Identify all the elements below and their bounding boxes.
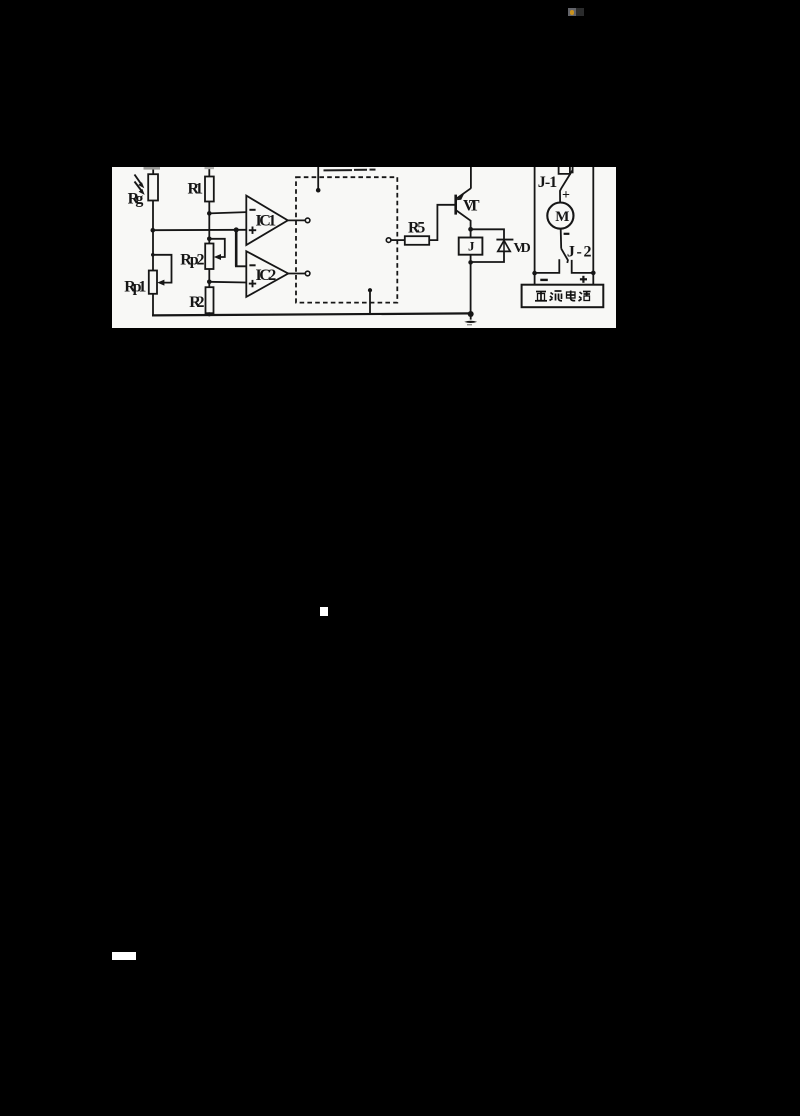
op-amp IC1 plus sign bbox=[249, 227, 256, 234]
node relay bottom dot bbox=[468, 260, 473, 265]
node VT collector dot bbox=[468, 227, 473, 232]
op-amp IC2 plus sign bbox=[249, 280, 256, 287]
svg-text:R2: R2 bbox=[189, 294, 204, 311]
diode VD triangle bbox=[498, 241, 510, 252]
op-amp IC2 output wire bbox=[288, 273, 305, 275]
motor minus sign bbox=[564, 233, 570, 235]
op-amp IC1 bbox=[246, 196, 287, 245]
svg-text:VD: VD bbox=[514, 241, 531, 256]
potentiometer Rp2 wiper loop bbox=[209, 239, 225, 260]
node divider A dot bbox=[151, 228, 156, 233]
wire to diode VD top bbox=[471, 229, 504, 239]
relay contact J-2 arm bbox=[561, 249, 568, 263]
resistor R5 body bbox=[405, 236, 429, 245]
battery minus sign bbox=[540, 279, 548, 281]
wire diode VD bottom bbox=[471, 251, 504, 262]
wire module supply stub bbox=[317, 167, 319, 190]
svg-text:+: + bbox=[562, 188, 570, 203]
relay contact J-2 fixed stub right bbox=[572, 260, 594, 273]
node supply stub dot bbox=[316, 188, 321, 193]
small white square mid page bbox=[320, 607, 328, 616]
wire relay bottom to ground rail bbox=[470, 255, 472, 314]
svg-text:Rp1: Rp1 bbox=[124, 278, 146, 295]
wire R1 bottom to Rp2 bbox=[208, 202, 210, 244]
photoresistor Rg top wire bbox=[152, 167, 154, 175]
op-amp IC1 minus sign bbox=[249, 209, 255, 211]
svg-text:Rp2: Rp2 bbox=[180, 251, 204, 268]
wire to R5 bbox=[391, 239, 405, 241]
wire VT emitter up bbox=[470, 167, 472, 188]
node R1/Rp2 reference dot bbox=[207, 211, 212, 216]
node Rp2 top dot bbox=[207, 237, 212, 242]
wire ground rail bottom bbox=[152, 313, 471, 315]
terminal IC1 output circle bbox=[305, 218, 310, 223]
wire to IC1 inverting input bbox=[209, 212, 246, 213]
crop smudge above R1 bbox=[205, 167, 215, 169]
wire bar to IC2 inverting input bbox=[235, 230, 246, 266]
wire supply rail right bbox=[592, 167, 594, 285]
transistor VT collector bbox=[457, 211, 471, 238]
photoresistor Rg body bbox=[148, 174, 158, 200]
svg-text:R5: R5 bbox=[408, 219, 425, 236]
node rail right dot bbox=[591, 271, 596, 276]
hatched crop line top bbox=[324, 169, 376, 172]
relay contact J-1 bbox=[559, 167, 573, 202]
resistor R2 body bbox=[206, 287, 214, 313]
ground symbol bbox=[464, 311, 477, 325]
node R2 bottom dot bbox=[207, 312, 211, 316]
battery plus sign bbox=[580, 276, 587, 283]
svg-text:J-1: J-1 bbox=[538, 174, 558, 191]
svg-text:J: J bbox=[468, 239, 475, 254]
svg-text:IC2: IC2 bbox=[256, 267, 277, 284]
motor M circle bbox=[547, 203, 573, 229]
node R2 top dot bbox=[207, 280, 212, 285]
wire Rp2 bottom to R2 bbox=[208, 269, 210, 287]
dashed control module box bbox=[296, 177, 397, 302]
wire Rg bottom to Rp1 bbox=[152, 201, 154, 271]
node Rp1 wiper tap dot bbox=[151, 253, 155, 257]
label DC power text 直流电源 bbox=[535, 291, 591, 302]
terminal IC2 output circle bbox=[305, 271, 310, 276]
svg-text:M: M bbox=[555, 209, 569, 225]
circuit schematic scan bbox=[112, 167, 616, 328]
svg-text:J-2: J-2 bbox=[567, 244, 592, 261]
node rail left dot bbox=[532, 271, 537, 276]
small white bar lower left bbox=[112, 952, 136, 960]
potentiometer Rp1 wiper loop bbox=[153, 255, 172, 286]
wire through diode VD bbox=[503, 240, 505, 252]
op-amp IC1 output wire bbox=[288, 219, 306, 221]
light arrow 2 bbox=[135, 182, 145, 195]
transistor VT base bar bbox=[454, 195, 457, 215]
relay contact J-2 fixed stub left bbox=[535, 259, 560, 273]
op-amp IC2 bbox=[246, 251, 288, 297]
crop smudge above Rg bbox=[144, 167, 161, 170]
wire Rp1 bottom bbox=[152, 294, 154, 316]
wire supply rail left bbox=[534, 167, 536, 285]
svg-text:Rg: Rg bbox=[128, 191, 144, 208]
node module bottom dot bbox=[368, 288, 372, 292]
svg-text:VT: VT bbox=[463, 198, 480, 215]
light arrow 1 bbox=[135, 175, 145, 189]
svg-text:R1: R1 bbox=[188, 180, 204, 197]
potentiometer Rp2 body bbox=[205, 244, 213, 270]
wire motor bottom bbox=[560, 229, 563, 249]
op-amp IC2 minus sign bbox=[249, 264, 255, 266]
svg-text:IC1: IC1 bbox=[256, 213, 277, 230]
relay coil J box bbox=[459, 238, 483, 255]
wire divider output rail bbox=[153, 229, 247, 231]
wire R5 to VT base bbox=[429, 205, 455, 240]
transistor VT emitter arrow bbox=[456, 188, 471, 200]
wire to IC2 non-inverting input bbox=[209, 281, 246, 284]
toolbar icon squares top right bbox=[568, 8, 576, 16]
terminal module output circle bbox=[386, 238, 391, 243]
wire module ground stub bbox=[369, 290, 371, 314]
node IC1 plus input dot bbox=[234, 227, 239, 232]
resistor R1 body bbox=[205, 177, 214, 202]
DC power supply box bbox=[522, 285, 604, 308]
potentiometer Rp1 body bbox=[149, 271, 157, 294]
diode VD cathode bar bbox=[496, 239, 513, 241]
resistor R1 top wire bbox=[208, 167, 210, 177]
